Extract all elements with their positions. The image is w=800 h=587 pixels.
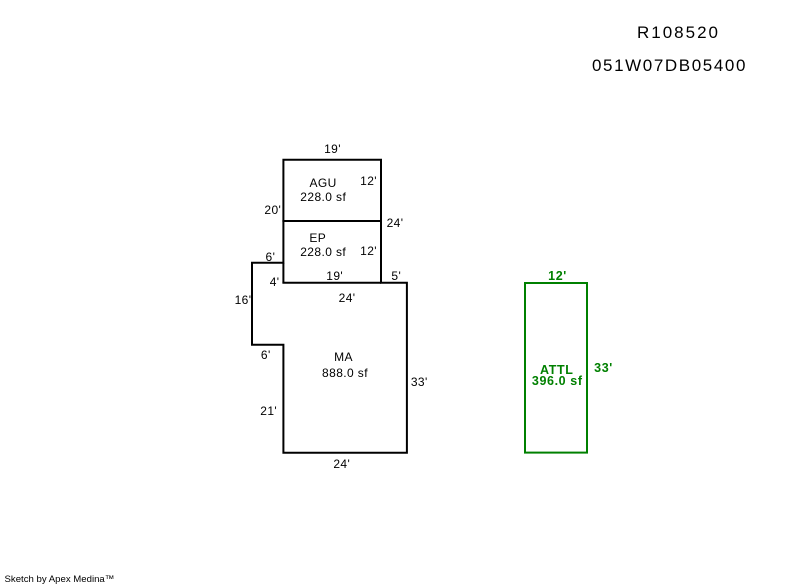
dim label 20' (left of AGU/EP) xyxy=(264,204,281,216)
dim label 24' (right of AGU/EP) xyxy=(387,217,404,229)
dim label 12' (ATTL top, green) xyxy=(548,270,567,283)
area label ATTL 396.0 sf (green) xyxy=(532,374,583,387)
dim label 16' (notch left) xyxy=(235,294,252,306)
footer: Sketch by Apex Medina™ xyxy=(5,575,115,585)
dim label 24' (MA bottom) xyxy=(333,458,350,470)
dim label 12' (EP right) xyxy=(360,245,377,257)
header: record number R108520 xyxy=(637,24,720,41)
area label MA 888.0 sf xyxy=(322,367,368,379)
room label AGU xyxy=(309,177,336,189)
header: parcel id 051W07DB05400 xyxy=(592,57,747,74)
wall: EP bottom / MA top xyxy=(282,282,381,284)
building outer wall polygon (AGU/EP/MA footprint) xyxy=(252,160,407,453)
room label MA xyxy=(334,351,353,363)
wall: AGU/EP divider xyxy=(282,220,381,222)
room label EP xyxy=(309,232,326,244)
dim label 33' (ATTL right, green) xyxy=(594,362,613,375)
dim label 6' (notch bottom) xyxy=(261,349,271,361)
area label AGU 228.0 sf xyxy=(300,191,346,203)
wall: EP left lower 4' segment xyxy=(282,263,284,283)
dim label 21' (MA left) xyxy=(260,405,277,417)
dim label 4' (EP left lower) xyxy=(270,276,280,288)
room label ATTL (green) xyxy=(540,364,573,377)
dim label 12' (AGU right) xyxy=(360,175,377,187)
ATTL detached rectangle (green) xyxy=(525,283,587,453)
dim label 19' (AGU top) xyxy=(324,143,341,155)
dim label 24' (MA top) xyxy=(339,292,356,304)
dim label 19' (EP bottom) xyxy=(326,270,343,282)
dim label 33' (MA right) xyxy=(411,376,428,388)
area label EP 228.0 sf xyxy=(300,246,346,258)
dim label 6' (notch top) xyxy=(266,251,276,263)
dim label 5' (MA top right) xyxy=(391,270,401,282)
